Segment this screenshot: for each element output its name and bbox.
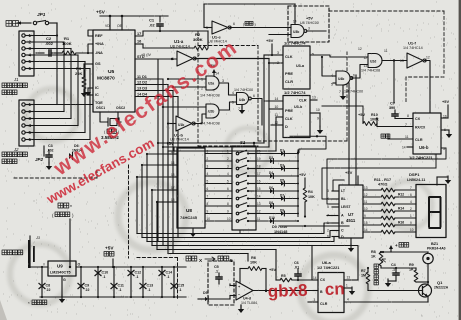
svg-text:-INA: -INA: [95, 51, 103, 55]
wire from power label to +5V rail: [69, 219, 71, 267]
svg-text:4: 4: [227, 172, 229, 176]
svg-text:1K: 1K: [371, 255, 376, 259]
U8 ground pin: [192, 228, 194, 231]
svg-text:12: 12: [426, 56, 430, 60]
svg-text:TOE: TOE: [95, 101, 103, 105]
capacitor C14 .1: [161, 267, 163, 297]
ground below op-amp: [240, 305, 242, 308]
capacitor C8 22: [41, 267, 43, 297]
label volume adjust (vertical): [374, 264, 378, 268]
svg-text:.1: .1: [167, 275, 170, 279]
svg-text:DSP1: DSP1: [409, 172, 420, 177]
svg-text:8: 8: [207, 202, 209, 206]
connector J1 (6-pin): [19, 31, 34, 76]
svg-text:1/4 74HC00: 1/4 74HC00: [344, 90, 363, 94]
svg-text:J1: J1: [13, 77, 19, 82]
svg-text:D7: D7: [280, 193, 284, 197]
svg-text:3: 3: [308, 27, 310, 31]
svg-text:R7: R7: [361, 269, 366, 273]
svg-text:U3b: U3b: [293, 30, 299, 34]
wire bus rows linking verticals to FF region: [158, 142, 264, 144]
svg-text:15: 15: [171, 150, 175, 154]
svg-text:14: 14: [171, 161, 175, 165]
svg-text:10: 10: [316, 108, 320, 112]
wire risers to right-side gates: [355, 75, 357, 185]
svg-text:C13: C13: [147, 284, 154, 288]
svg-text:470Ω: 470Ω: [378, 183, 387, 187]
NAND gate U4-b: [336, 71, 350, 85]
wire: REF loop: [88, 30, 93, 36]
svg-text:gbx8: gbx8: [267, 281, 307, 301]
svg-text:R16: R16: [398, 221, 404, 225]
svg-text:4: 4: [347, 298, 349, 302]
capacitor C13 .1: [142, 267, 144, 297]
svg-text:14: 14: [402, 146, 406, 150]
wire bus riser to buzzer supply: [426, 251, 428, 253]
wire U1-b out: [194, 114, 206, 124]
svg-text:9: 9: [227, 210, 229, 214]
wire: top feedback run: [204, 3, 295, 5]
ground under FF2 output: [319, 113, 321, 127]
svg-text:+5V: +5V: [306, 17, 313, 21]
svg-text:8: 8: [227, 202, 229, 206]
capacitor C9 22: [80, 267, 82, 297]
svg-text:6: 6: [253, 94, 255, 98]
capacitor C11 .1: [113, 267, 115, 297]
svg-text:18: 18: [171, 198, 175, 202]
dashed cut line below J2: [14, 177, 97, 179]
svg-text:5: 5: [227, 180, 229, 184]
svg-text:G: G: [63, 278, 66, 282]
svg-text:R10: R10: [371, 113, 378, 117]
svg-text:15: 15: [257, 187, 261, 191]
crystal X1 3.58MHz: [100, 119, 107, 122]
svg-text:U8: U8: [186, 208, 192, 213]
svg-text:1/4 74HC14: 1/4 74HC14: [403, 46, 423, 50]
svg-text:5: 5: [207, 180, 209, 184]
FF1 Q output wire to U4-b: [310, 55, 368, 57]
svg-text:C7: C7: [390, 101, 395, 106]
svg-text:12 D2: 12 D2: [137, 81, 147, 85]
svg-text:10: 10: [227, 217, 231, 221]
dashed module box around flip-flops: [258, 140, 347, 142]
svg-text:17: 17: [137, 32, 141, 36]
wire bus: bottom horizontal runs: [137, 223, 339, 234]
svg-text:C9: C9: [85, 284, 90, 288]
collector wire from buzzer: [427, 264, 429, 285]
DSP1 top right ground: [436, 177, 438, 185]
svg-text:U1b: U1b: [178, 123, 184, 127]
op-amp output wire to U6-a: [253, 290, 313, 292]
svg-text:13: 13: [312, 96, 316, 100]
svg-text:1: 1: [227, 150, 229, 154]
svg-text:.1: .1: [392, 268, 395, 272]
svg-text:2: 2: [207, 157, 209, 161]
svg-text:74HC245: 74HC245: [180, 215, 198, 220]
svg-text:7: 7: [339, 90, 341, 94]
wire FF2 strobe to diode bus: [290, 136, 326, 152]
svg-text:19: 19: [257, 157, 261, 161]
svg-text:1: 1: [172, 57, 174, 61]
wire U4-b output up to U2-d: [351, 65, 368, 79]
FF2 pin13 stub: [310, 99, 317, 101]
svg-text:CLR: CLR: [299, 99, 307, 103]
monostable U6-b 1/2 74HC221: [413, 113, 441, 154]
svg-text:): ): [255, 23, 256, 27]
svg-text:+5V: +5V: [166, 141, 174, 146]
svg-text:12: 12: [364, 193, 368, 197]
buffer U8 74HC245: [177, 148, 205, 228]
svg-text:7: 7: [207, 195, 209, 199]
svg-text:9: 9: [207, 210, 209, 214]
svg-text:J3: J3: [35, 236, 41, 240]
svg-text:12: 12: [358, 47, 362, 51]
svg-text:IC: IC: [95, 86, 99, 90]
svg-text:R14: R14: [398, 207, 404, 211]
svg-text:6: 6: [207, 187, 209, 191]
wire stub down from U2-d output junction: [393, 61, 395, 104]
svg-text:R11 - R17: R11 - R17: [374, 178, 391, 182]
label: 6-pin solder holes (J2): [2, 152, 7, 157]
U5 top supply pins: [109, 16, 111, 30]
wire U1-f output down to U6-b: [425, 61, 430, 114]
svg-text:1/4 74HC08: 1/4 74HC08: [200, 94, 220, 98]
svg-text:1/4 TL084: 1/4 TL084: [241, 301, 257, 305]
svg-text:8: 8: [407, 114, 409, 118]
svg-text:CLK: CLK: [285, 55, 293, 59]
wire U6-b pin5 stub: [441, 147, 446, 149]
svg-text:+5V: +5V: [269, 267, 276, 272]
svg-text:.1: .1: [215, 270, 218, 274]
svg-text:U4b: U4b: [338, 77, 344, 81]
svg-text:3: 3: [222, 79, 224, 83]
svg-text:14: 14: [257, 195, 261, 199]
svg-text:*: *: [70, 205, 72, 211]
label: handwriting to fig.5: [186, 256, 191, 261]
diodes D0-D10 1N4148 column: [256, 153, 281, 155]
connector J2 (6-pin): [19, 100, 34, 146]
label: DC input: [2, 250, 7, 255]
wire to CLR pin of U6-b: [388, 138, 413, 140]
wire U2-d output to U1-f: [382, 60, 407, 62]
svg-text:4: 4: [232, 91, 234, 95]
FF2 Q output: [310, 112, 320, 114]
svg-text:1/4 74HC08: 1/4 74HC08: [361, 69, 380, 73]
svg-text:6: 6: [410, 193, 412, 197]
svg-text:+5V: +5V: [105, 246, 114, 251]
svg-text:D: D: [285, 124, 288, 129]
wire FF1 inputs from left: [264, 54, 276, 56]
svg-text:C: C: [341, 229, 344, 233]
riser to U6-a: [311, 246, 313, 281]
svg-text:U1-a: U1-a: [174, 39, 184, 44]
svg-text:U2b: U2b: [208, 110, 214, 114]
svg-text:JP1: JP1: [37, 12, 46, 17]
svg-text:13: 13: [257, 202, 261, 206]
svg-text:20: 20: [257, 150, 261, 154]
svg-text:.1: .1: [148, 288, 151, 292]
U4-b ground pin 7: [342, 85, 344, 94]
svg-text:4: 4: [327, 197, 329, 201]
svg-text:+: +: [395, 243, 398, 248]
wires into FF2 from left verticals: [264, 100, 283, 102]
svg-text:1/4 74HC00: 1/4 74HC00: [234, 88, 253, 92]
capacitor C10 .1: [97, 267, 99, 297]
svg-text:2N2222A: 2N2222A: [434, 286, 449, 290]
wire jack to regulator: [31, 266, 48, 268]
wire control run to U7 (LE/ST): [327, 148, 446, 204]
label: power (dianyuan) top-left: [6, 21, 12, 27]
svg-text:1/2 74HC221: 1/2 74HC221: [317, 266, 339, 270]
U4-a ground pin: [241, 105, 243, 110]
svg-text:5: 5: [232, 101, 234, 105]
inverter U1-e 74HC14: [212, 21, 228, 34]
U6-a right pins: [344, 279, 358, 281]
svg-text:1: 1: [207, 150, 209, 154]
svg-text:16: 16: [257, 180, 261, 184]
svg-text:10K: 10K: [308, 195, 315, 199]
wire stubs near J2 caps: [43, 146, 45, 152]
svg-text:C12: C12: [135, 271, 142, 275]
svg-text:4: 4: [410, 200, 412, 204]
svg-text:D6: D6: [269, 186, 273, 190]
label +power with arrow: [390, 248, 392, 252]
svg-text:+5 (IV: +5 (IV: [141, 53, 151, 57]
wire U2-a out: [220, 83, 237, 95]
svg-text:VD: VD: [105, 24, 110, 28]
svg-text:16: 16: [137, 40, 141, 44]
svg-text:cn: cn: [324, 279, 344, 299]
left feed verticals for flip-flops: [263, 55, 265, 143]
svg-text:PKM24-4A0: PKM24-4A0: [427, 247, 446, 251]
svg-text:RX/CX: RX/CX: [415, 126, 426, 130]
svg-text:6: 6: [353, 74, 355, 78]
wire mesh from J1 to J2 pins: [56, 23, 58, 105]
svg-text:2: 2: [410, 207, 412, 211]
IC grounded pins stubs: [88, 87, 93, 89]
svg-text:12: 12: [257, 210, 261, 214]
wire bus bottom of diode bank: [279, 225, 349, 227]
svg-text:1: 1: [346, 284, 348, 288]
svg-text:LN5624-11: LN5624-11: [407, 178, 425, 182]
svg-text:7: 7: [238, 107, 240, 111]
svg-text:R9: R9: [409, 263, 414, 267]
wire power to buzzer: [383, 251, 428, 253]
svg-text:BZ1: BZ1: [431, 242, 438, 246]
svg-text:17: 17: [171, 186, 175, 190]
svg-text:D1: D1: [280, 148, 284, 152]
svg-text:+5V: +5V: [358, 112, 365, 117]
svg-text:7: 7: [410, 186, 412, 190]
svg-text:6: 6: [233, 22, 235, 26]
svg-text:U3-b: U3-b: [294, 105, 303, 109]
svg-text:+5V: +5V: [96, 10, 106, 16]
svg-text:2: 2: [227, 157, 229, 161]
svg-text:D2: D2: [269, 156, 273, 160]
svg-text:11: 11: [257, 217, 261, 221]
wire: input line into U5 -INA: [36, 52, 44, 54]
svg-text:CLR: CLR: [285, 79, 293, 84]
IC U5 MC8870 DTMF decoder: [93, 30, 135, 112]
wire arrow to JP1: [17, 22, 31, 24]
svg-text:11: 11: [405, 135, 409, 139]
AND gate U2-d: [368, 54, 382, 68]
svg-text:+5V: +5V: [299, 173, 306, 177]
svg-text:22: 22: [47, 288, 51, 292]
svg-text:1/2 74HC221: 1/2 74HC221: [409, 155, 433, 160]
svg-text:GS: GS: [95, 62, 101, 66]
svg-text:20K: 20K: [75, 71, 82, 76]
svg-text:C3: C3: [48, 144, 53, 148]
wire bus: left long verticals to bottom bus: [136, 177, 138, 234]
wires into op-amp: [230, 285, 236, 287]
svg-text:14: 14: [293, 20, 297, 24]
svg-text:A: A: [341, 214, 344, 218]
svg-text:1/4 74HC08: 1/4 74HC08: [200, 122, 220, 126]
ground at volume node: [380, 268, 382, 281]
svg-text:U1-f: U1-f: [408, 41, 416, 46]
scan edge artifact right: [459, 0, 461, 320]
wire: switch bank enable from bus: [253, 143, 255, 146]
svg-text:R5: R5: [281, 274, 286, 278]
U6-a Q output wire to transistor emitter return: [344, 301, 428, 303]
wire bus from U7 left side down: [332, 185, 358, 191]
svg-text:D5: D5: [203, 291, 208, 295]
svg-text:13: 13: [364, 186, 368, 190]
svg-text:OSC1: OSC1: [96, 106, 105, 110]
seven segment digit: [429, 197, 441, 228]
svg-text:U5: U5: [108, 69, 115, 75]
svg-text:D: D: [341, 235, 344, 239]
svg-text:U6-b: U6-b: [419, 145, 429, 150]
svg-text:2: 2: [327, 229, 329, 233]
wire U2-b out: [220, 102, 237, 110]
svg-text:1/2 74HC74: 1/2 74HC74: [284, 90, 306, 95]
svg-text:U6-a: U6-a: [322, 260, 331, 265]
ground below R3: [83, 89, 85, 93]
capacitor C15 .1: [173, 267, 175, 297]
svg-text:3: 3: [277, 51, 279, 55]
svg-text:10: 10: [207, 217, 211, 221]
svg-text:*: *: [28, 301, 30, 306]
dashed module boundary left vertical: [128, 165, 130, 258]
svg-text:13 D3: 13 D3: [137, 87, 147, 91]
svg-text:10K: 10K: [250, 261, 257, 265]
svg-text:BL: BL: [341, 197, 347, 201]
capacitor C12 .1: [130, 267, 132, 297]
svg-text:I: I: [44, 263, 45, 267]
wiper wire to C4/R9 node: [380, 266, 382, 268]
DC input jack J3: [28, 240, 31, 268]
svg-text:U9: U9: [57, 264, 63, 269]
wire from bus up to U6-b CLR: [386, 138, 395, 140]
svg-text:13: 13: [171, 173, 175, 177]
svg-text:C6: C6: [294, 261, 299, 265]
wire +5V feed to R10: [322, 105, 363, 107]
svg-text:13: 13: [347, 276, 351, 280]
svg-text:O: O: [78, 263, 81, 267]
ground rail bottom: [40, 296, 186, 298]
svg-text:CLR: CLR: [320, 302, 328, 306]
svg-text:3: 3: [207, 165, 209, 169]
scan shadow bottom-left: [0, 300, 7, 320]
svg-text:B: B: [320, 290, 323, 294]
svg-text:4511: 4511: [346, 218, 356, 223]
svg-text:U7: U7: [348, 212, 354, 217]
svg-text:.1: .1: [179, 288, 182, 292]
svg-text:4: 4: [207, 172, 209, 176]
svg-text:MC8870: MC8870: [97, 76, 115, 81]
inverter U1-b 74HC14: [176, 116, 192, 131]
BCD driver U7 4511: [339, 185, 363, 238]
svg-text:.02: .02: [149, 23, 155, 28]
svg-text:.1: .1: [136, 275, 139, 279]
svg-text:14: 14: [313, 276, 317, 280]
svg-text:C14: C14: [166, 271, 173, 275]
svg-text:C8: C8: [46, 284, 51, 288]
svg-text:3: 3: [227, 165, 229, 169]
svg-text:PRE: PRE: [285, 108, 293, 113]
svg-text:C11: C11: [118, 284, 124, 288]
svg-text:9: 9: [317, 117, 319, 121]
svg-text:U2d: U2d: [370, 60, 376, 64]
label: 6-pin solder holes (J1): [2, 83, 7, 88]
svg-text:C15: C15: [178, 284, 185, 288]
wire stub bottom of U6-b: [435, 154, 437, 168]
svg-text:5: 5: [327, 205, 329, 209]
svg-text:CLK: CLK: [285, 117, 293, 121]
svg-text:.002: .002: [45, 41, 54, 46]
svg-text:1M: 1M: [361, 274, 366, 278]
svg-text:R12: R12: [398, 193, 404, 197]
svg-text:JP2: JP2: [35, 157, 43, 162]
wire from U3-b output up to feedback run: [307, 30, 326, 32]
wire control run 2 to U7: [322, 168, 436, 199]
svg-text:.002: .002: [47, 149, 54, 153]
svg-text:10: 10: [364, 207, 368, 211]
wire U4-a output: [252, 99, 262, 126]
dashed module boundary bottom corner: [137, 257, 178, 259]
emitter return wire: [427, 297, 429, 303]
svg-text:U2a: U2a: [208, 82, 214, 86]
svg-text:OE: OE: [117, 24, 123, 28]
U7 ground pin: [350, 238, 352, 245]
svg-text:.1: .1: [119, 288, 122, 292]
svg-text:REF: REF: [95, 34, 103, 38]
op-amp U4-d 1/4 TL084: [236, 281, 253, 300]
svg-text:7: 7: [227, 195, 229, 199]
svg-text:6: 6: [227, 187, 229, 191]
svg-text:11: 11: [364, 200, 368, 204]
svg-text:.1: .1: [103, 275, 106, 279]
dashed box around op-amp U4-d: [208, 261, 234, 305]
U9 ground leg: [61, 276, 63, 297]
svg-text:D10: D10: [269, 216, 275, 220]
svg-text:LM2940CT5: LM2940CT5: [50, 271, 71, 275]
svg-text:12: 12: [364, 56, 368, 60]
svg-text:+5V: +5V: [266, 38, 274, 43]
svg-text:+5V: +5V: [442, 99, 449, 104]
svg-text:3: 3: [327, 189, 329, 193]
svg-text:1: 1: [410, 214, 412, 218]
wire stub from switch box bottom to bus: [239, 230, 241, 234]
svg-text:J2: J2: [13, 147, 19, 152]
svg-text:17: 17: [257, 172, 261, 176]
svg-text:C10: C10: [102, 271, 109, 275]
svg-text:U8 74HC00: U8 74HC00: [300, 21, 319, 25]
risers to op-amp box: [247, 254, 249, 262]
svg-text:CLR: CLR: [415, 138, 423, 142]
